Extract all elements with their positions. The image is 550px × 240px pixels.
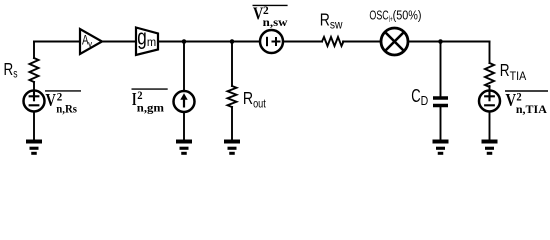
svg-text:n,sw: n,sw [263, 15, 288, 29]
svg-text:R: R [243, 88, 253, 108]
svg-text:R: R [500, 60, 510, 80]
svg-text:sw: sw [330, 18, 343, 32]
svg-text:g: g [137, 25, 147, 50]
svg-text:out: out [253, 96, 266, 110]
svg-text:R: R [320, 10, 330, 30]
svg-text:R: R [4, 59, 14, 79]
svg-text:V: V [46, 90, 57, 110]
svg-text:V: V [506, 90, 517, 110]
svg-text:n,TIA: n,TIA [516, 102, 547, 116]
svg-text:s: s [13, 69, 17, 81]
svg-text:v: v [88, 39, 92, 50]
svg-text:C: C [411, 86, 420, 106]
svg-text:D: D [421, 93, 429, 108]
svg-text:m: m [147, 35, 156, 49]
svg-text:n,gm: n,gm [137, 101, 164, 115]
svg-text:OSC: OSC [369, 9, 388, 23]
svg-text:n,Rs: n,Rs [56, 102, 77, 116]
svg-text:(50%): (50%) [393, 9, 422, 23]
svg-text:TIA: TIA [510, 69, 527, 83]
